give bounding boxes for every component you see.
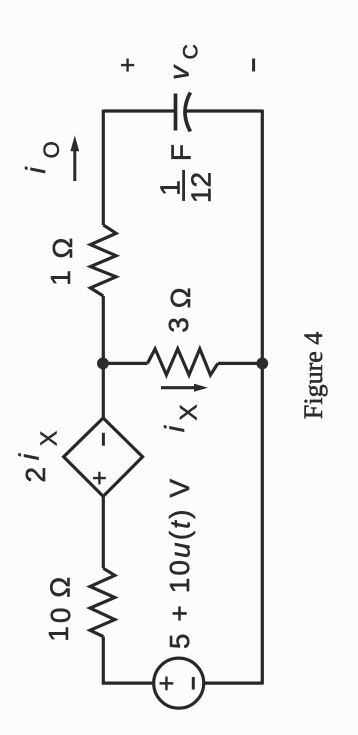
- node A junction dot: [97, 358, 109, 370]
- svg-text:X: X: [175, 404, 202, 420]
- svg-text:i: i: [159, 425, 190, 432]
- wire left rail (1-ohm to node A): [102, 296, 105, 363]
- svg-text:+: +: [86, 471, 114, 486]
- wire bottom-right segment (source to bottom-right corner): [204, 682, 263, 685]
- svg-text:1: 1: [45, 270, 76, 286]
- svg-text:Ω: Ω: [47, 238, 78, 259]
- svg-text:5 + 10u(t) V: 5 + 10u(t) V: [164, 477, 195, 649]
- voltage source V1 circle: [154, 658, 204, 708]
- wire top-right segment (capacitor right plate to right rail): [186, 109, 262, 112]
- label minus sign of vC: [252, 59, 255, 72]
- svg-text:F: F: [166, 144, 197, 161]
- label iX: [159, 404, 202, 432]
- node B junction dot: [256, 358, 268, 370]
- svg-text:i: i: [14, 453, 45, 460]
- resistor R 10 ohm: [90, 568, 115, 636]
- svg-text:Figure 4: Figure 4: [299, 332, 328, 419]
- label minus sign inside diamond: [102, 433, 105, 446]
- label iO: [20, 141, 64, 173]
- label 1/12 F capacitor value: [155, 144, 217, 203]
- wire left rail bottom (10-ohm to bottom-left corner): [103, 637, 153, 684]
- svg-text:+: +: [152, 675, 182, 691]
- label vC: [163, 44, 202, 80]
- svg-text:1: 1: [43, 626, 74, 642]
- resistor R 1 ohm: [90, 225, 116, 296]
- svg-text:v: v: [163, 64, 194, 80]
- wire left rail (node A to dependent source top): [102, 363, 105, 418]
- wire top-left segment (top node to capacitor left plate): [103, 109, 175, 112]
- svg-text:X: X: [35, 431, 61, 446]
- svg-text:2: 2: [20, 467, 51, 483]
- wire right rail: [261, 110, 264, 685]
- svg-text:0: 0: [45, 608, 76, 624]
- label 2iX gain of dependent source: [14, 431, 62, 483]
- wire middle left (node A to 3-ohm): [103, 362, 147, 365]
- svg-text:Ω: Ω: [44, 577, 75, 598]
- wire left rail top (corner to 1-ohm resistor): [102, 110, 105, 225]
- label 10 ohm: [43, 577, 76, 642]
- resistor R 3 ohm: [148, 349, 218, 375]
- svg-text:3: 3: [163, 317, 194, 333]
- svg-text:C: C: [180, 44, 203, 59]
- label 3 ohm: [163, 287, 196, 332]
- dependent source U1 diamond 2iX: [64, 418, 143, 496]
- svg-text:O: O: [39, 141, 64, 158]
- wire middle right (3-ohm to node B): [218, 362, 262, 365]
- arrow iO current direction: [70, 136, 79, 182]
- arrow iX current direction: [161, 384, 208, 392]
- label minus sign inside voltage source: [192, 677, 195, 690]
- svg-text:12: 12: [185, 172, 216, 203]
- svg-text:1: 1: [155, 180, 186, 196]
- svg-text:i: i: [20, 167, 51, 174]
- capacitor C 1/12 F: [176, 93, 191, 132]
- wire left rail (dependent source bottom to 10-ohm resistor): [102, 496, 105, 568]
- svg-text:Ω: Ω: [165, 287, 196, 308]
- svg-text:+: +: [113, 57, 143, 72]
- label 1 ohm: [45, 238, 78, 286]
